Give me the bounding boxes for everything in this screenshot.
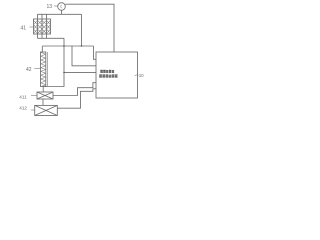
svg-text:41: 41 bbox=[21, 25, 27, 31]
svg-text:42: 42 bbox=[26, 67, 32, 73]
svg-text:411: 411 bbox=[19, 94, 27, 99]
svg-text:412: 412 bbox=[19, 106, 27, 111]
svg-text:13: 13 bbox=[47, 4, 53, 10]
svg-text:10: 10 bbox=[139, 73, 144, 78]
